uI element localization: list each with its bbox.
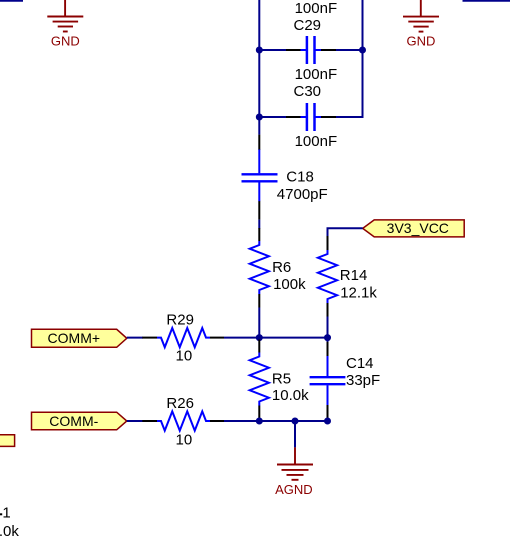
wire R14 to node B [327,317,329,338]
wire to AGND [294,421,296,447]
svg-text:.0k: .0k [0,523,19,537]
svg-text:10: 10 [176,431,193,448]
svg-text:10.0k: 10.0k [272,387,309,404]
wire left rail C30 to C18 [258,117,260,135]
wire R29 to node A [224,337,259,339]
pin 1 C14 [327,342,329,357]
capacitor C18 [242,135,278,220]
resistor R26 [142,411,224,430]
resistor R29 [142,328,224,347]
wire C30 left [259,116,286,118]
svg-text:COMM-: COMM- [49,413,98,429]
wire bottom rail [259,420,327,422]
junction C30 left [256,114,263,121]
resistor R14 [318,236,337,317]
svg-text:GND: GND [51,33,80,48]
pin 1 R26 [142,420,157,422]
svg-text:4700pF: 4700pF [277,186,328,203]
wire top-left edge [0,0,23,2]
svg-text:C29: C29 [294,17,322,34]
svg-text:R14: R14 [340,267,368,284]
svg-text:R29: R29 [166,312,194,329]
capacitor C29 [286,36,336,64]
svg-text:R6: R6 [272,259,291,276]
pin 2 C29 [321,49,336,51]
wire R6 to node A [258,308,260,338]
sheet entry flag COMM+ [32,329,127,347]
wire COMM- to R26 [127,420,143,422]
pin 1 R29 [142,337,157,339]
pin 1 R5 [258,340,260,353]
pin 1 C18 [258,135,260,150]
svg-text:12.1k: 12.1k [340,284,377,301]
wire R26 to bottom rail [224,420,259,422]
svg-text:C30: C30 [294,83,322,100]
junction bottom left (R5) [256,418,263,425]
wire right rail C29 to C30 corner [336,50,363,117]
svg-text:100nF: 100nF [295,133,338,150]
wire left rail C29 to C30 [258,50,260,117]
junction node A [256,334,263,341]
svg-text:10: 10 [176,348,193,365]
svg-text:C14: C14 [346,355,374,372]
ground GND (top right power symbol) [403,0,439,32]
svg-text:100k: 100k [273,276,306,293]
ground GND (top left power symbol) [47,0,83,32]
wire C29 left [259,49,286,51]
svg-text:R5: R5 [272,371,291,388]
wire right rail top [362,0,364,50]
wire R5 to bottom rail [258,419,260,422]
svg-text:COMM+: COMM+ [48,330,101,346]
junction bottom middle (AGND) [292,418,299,425]
label fragment (cut designator) [0,513,2,515]
wire left rail top (to C29) [258,0,260,50]
resistor R6 [250,228,269,308]
power flag 3V3_VCC [363,220,465,237]
pin 2 C30 [321,116,336,118]
pin 2 R5 [258,406,260,419]
wire C29 right [336,49,363,51]
pin 2 C14 [327,405,329,420]
wire 3V3_VCC to R14 [328,228,363,236]
svg-text:33pF: 33pF [346,372,380,389]
junction C29 right [359,47,366,54]
capacitor C30 [286,103,336,131]
pin 2 R29 [210,337,224,339]
pin 2 R26 [210,420,224,422]
svg-text:R26: R26 [166,395,194,412]
pin 1 C29 [286,49,301,51]
svg-text:3V3_VCC: 3V3_VCC [387,220,449,236]
svg-text:100nF: 100nF [295,0,338,17]
sheet entry flag (partial, left edge) [0,435,15,447]
wire COMM+ to R29 [127,337,143,339]
resistor R5 [250,340,269,419]
pin 2 R6 [258,294,260,308]
pin 2 C18 [258,201,260,220]
svg-text:1: 1 [2,505,10,522]
svg-text:GND: GND [406,34,435,49]
junction C29 left [256,47,263,54]
junction node B [324,334,331,341]
wire C14 to bottom rail [327,419,329,421]
sheet entry flag COMM- [32,412,127,430]
wire C18 to R6 [258,220,260,229]
wire node B to C14 [327,338,329,343]
svg-text:100nF: 100nF [295,66,338,83]
pin 1 R6 [258,228,260,241]
capacitor C14 [310,342,346,419]
pin 1 R14 [327,236,329,250]
junction bottom right (C14) [324,418,331,425]
pin 1 C30 [286,116,301,118]
svg-text:C18: C18 [286,169,314,186]
wire node A to node B [259,337,327,339]
pin 2 R14 [327,303,329,317]
svg-text:AGND: AGND [275,482,313,497]
wire top-right edge [463,0,510,2]
ground AGND (power symbol) [277,447,313,479]
